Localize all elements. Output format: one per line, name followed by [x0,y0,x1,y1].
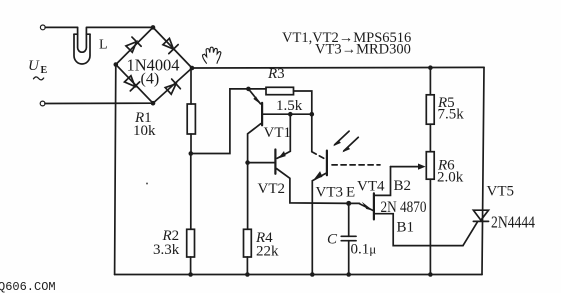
transistor VT1 [261,103,263,126]
thyristor VT5 2N4444 [473,210,488,220]
svg-text:22k: 22k [256,244,279,260]
wire bottom terminal to bridge bottom vertex [45,102,153,104]
wire top terminal to lamp [45,26,77,28]
node bridge top [151,25,156,30]
node bridge left [114,62,119,67]
svg-text:3.3k: 3.3k [153,242,180,258]
node VT1 emitter / VT2 base / R4 [245,160,250,165]
diode D2 top-right edge [162,37,179,54]
terminal top-left [40,25,45,30]
node bridge right [190,66,195,71]
svg-text:E: E [41,65,48,76]
node C to bottom rail [346,272,351,277]
svg-text:U: U [28,58,40,74]
diode D1 top-left edge [125,37,142,54]
terminal bottom-left [40,101,45,106]
light arrows into VT3 [335,131,350,145]
scan speck [146,183,148,185]
svg-text:1.5k: 1.5k [276,98,303,114]
hand (touch) icon [202,47,220,63]
wire bottom rail [115,274,482,276]
wire lamp to bridge top [87,26,153,28]
potentiometer R6 [426,152,434,180]
wire top rail from bridge right vertex [192,66,484,69]
svg-text:C: C [327,232,338,248]
node VT3 emitter to bottom rail [310,272,315,277]
wire DC- : bridge left vertex down the left rail [115,65,116,275]
node R6 to bottom rail [428,272,433,277]
svg-text:2N4444: 2N4444 [491,213,535,232]
node VT1 base / VT2 upper [288,112,293,117]
svg-text:B2: B2 [394,178,412,194]
svg-text:E: E [346,185,355,201]
svg-text:2N 4870: 2N 4870 [381,199,427,216]
diode D3 bottom-left edge [123,74,140,91]
node R1/R2 divider [189,151,194,156]
wire divider node to VT1 stage (gamma) [191,89,266,154]
node E (UJT emitter / C) [346,201,351,206]
svg-text:VT3: VT3 [316,185,344,201]
resistor R3 [266,87,294,94]
resistor R1 [190,70,192,104]
svg-text:R3: R3 [267,66,285,82]
svg-text:(4): (4) [141,71,160,88]
svg-text:2.0k: 2.0k [437,170,464,186]
lamp L [74,34,90,64]
svg-text:VT3→MRD300: VT3→MRD300 [315,42,411,58]
svg-text:0.1μ: 0.1μ [351,242,377,258]
svg-text:VT4: VT4 [357,179,385,195]
svg-text:7.5k: 7.5k [438,107,465,123]
diode D4 bottom-right edge [164,79,181,96]
resistor R5 [428,65,433,70]
svg-text:B1: B1 [397,219,415,235]
node R2 to bottom rail [188,272,193,277]
svg-text:L: L [99,38,108,53]
phototransistor VT3 MRD300 [311,114,313,152]
svg-text:10k: 10k [133,123,156,139]
node R3 right corner [310,112,315,117]
resistor R2 [190,154,192,230]
UJT VT4 2N4870 [349,202,360,204]
node R4 to bottom rail [245,272,250,277]
svg-text:VT5: VT5 [487,184,515,200]
node R3 left / VT1 emitter [246,87,251,92]
node bridge bottom [151,101,156,106]
svg-text:Q606.COM: Q606.COM [0,280,56,293]
wire right rail [482,67,484,274]
svg-text:VT2: VT2 [258,181,286,197]
potentiometer R6 wiper arrow from B2 [391,166,420,168]
svg-text:VT1: VT1 [264,125,292,141]
bridge rectifier 1N4004 (4) : edges [116,27,192,103]
capacitor C 0.1u [348,203,350,236]
resistor R4 [247,163,249,230]
transistor VT2 [289,114,291,151]
